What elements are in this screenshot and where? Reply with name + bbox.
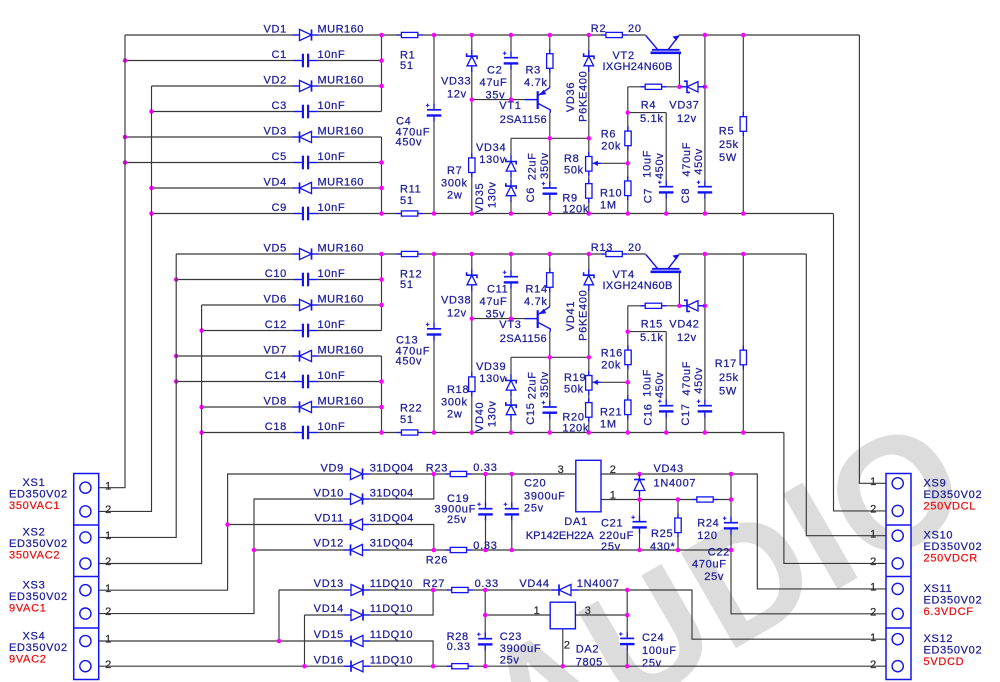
node right bus junctions ch1 (379, 58, 384, 190)
wire XS3 pin1 / VD9 row / DA1 pin3 (92, 474, 576, 590)
svg-text:R21: R21 (600, 407, 622, 419)
node DA2 pin rows junctions (483, 613, 630, 618)
svg-text:250VDCL: 250VDCL (924, 500, 977, 512)
svg-text:VD13: VD13 (314, 578, 344, 590)
svg-text:10nF: 10nF (318, 268, 346, 280)
svg-text:2: 2 (870, 504, 877, 516)
wire wiper row ch1 (592, 162, 628, 164)
wire C17 column ch2 (704, 254, 706, 433)
svg-text:120: 120 (697, 530, 717, 542)
capacitor C6 22uF 350v (542, 186, 558, 195)
svg-text:C20: C20 (524, 477, 546, 489)
svg-text:20k: 20k (601, 360, 621, 372)
resistor R25 430* (677, 513, 679, 537)
resistor R28 0.33 (447, 665, 473, 667)
wire gate drop ch2 (678, 272, 680, 306)
wire XS1 pin2 to ch1 bus B (92, 86, 152, 511)
svg-text:0.33: 0.33 (473, 540, 497, 552)
svg-text:1: 1 (534, 605, 541, 617)
svg-text:XS11: XS11 (924, 583, 953, 595)
svg-text:MUR160: MUR160 (318, 24, 364, 36)
transistor VT3 2SA1156 (525, 318, 538, 320)
svg-text:C1: C1 (272, 49, 287, 61)
wire gnd rail DA1 block (254, 549, 731, 551)
svg-text:VD33: VD33 (441, 76, 471, 88)
node left bus B junctions ch2 (199, 328, 204, 409)
connector XS1-XS4 terminal block (74, 474, 99, 680)
svg-text:R11: R11 (400, 184, 421, 196)
svg-text:100uF: 100uF (642, 645, 677, 657)
zener VD33 12v (471, 50, 473, 72)
svg-text:470uF: 470uF (681, 142, 693, 177)
tvs VD36 P6KE400 (588, 50, 590, 72)
wire VD36/R8/R9 column ch1 (588, 35, 590, 214)
svg-text:51: 51 (400, 60, 414, 72)
capacitor C3 10nF (301, 104, 311, 120)
svg-text:C8: C8 (680, 188, 692, 203)
capacitor C8 470uF 450v (697, 185, 713, 194)
wire row VD3 ch1 (125, 136, 382, 138)
wire R15 node row ch2 (628, 331, 666, 333)
resistor R27 0.33 (447, 589, 473, 591)
wire C16 column ch2 (665, 332, 667, 433)
svg-text:C17: C17 (680, 403, 692, 425)
capacitor C14 10nF (301, 374, 311, 390)
node VD13/VD15 join (277, 639, 282, 644)
wire R5 column ch1 (742, 35, 744, 214)
svg-text:10nF: 10nF (318, 100, 346, 112)
svg-text:47uF: 47uF (480, 77, 508, 89)
svg-text:3: 3 (585, 605, 592, 617)
wire row VD2 ch1 (152, 85, 382, 87)
svg-text:450v: 450v (693, 148, 705, 175)
svg-text:5.1k: 5.1k (640, 113, 664, 125)
svg-text:C7: C7 (643, 188, 655, 203)
svg-text:C5: C5 (272, 151, 287, 163)
svg-text:430*: 430* (650, 541, 675, 553)
svg-text:C14: C14 (265, 370, 287, 382)
svg-text:120k: 120k (562, 204, 589, 216)
wire C8 column ch1 (704, 35, 706, 214)
wire top rail channel 1 (125, 34, 859, 36)
svg-text:4.7k: 4.7k (524, 77, 548, 89)
resistor R2 20 (601, 34, 627, 36)
svg-text:VD38: VD38 (441, 295, 471, 307)
diode VD9 31DQ04 (344, 473, 370, 475)
svg-text:11DQ10: 11DQ10 (370, 629, 413, 641)
svg-text:IXGH24N60B: IXGH24N60B (603, 61, 673, 73)
svg-text:VD44: VD44 (519, 578, 549, 590)
wire R16/R21 column ch2 (627, 306, 629, 433)
svg-text:R18: R18 (447, 384, 469, 396)
node top rail junctions ch2 (379, 252, 745, 257)
svg-text:R6: R6 (601, 129, 616, 141)
diode VD2 MUR160 (293, 85, 319, 87)
svg-text:10nF: 10nF (318, 202, 346, 214)
node base row junctions ch1 (470, 97, 514, 102)
svg-text:R27: R27 (423, 578, 445, 590)
zener VD35 130v (510, 180, 512, 202)
wire row VD7 ch2 (176, 355, 381, 357)
svg-text:XS10: XS10 (924, 530, 954, 542)
tvs VD41 P6KE400 (588, 269, 590, 291)
wire C23 column (484, 590, 486, 666)
wire ch1 top rail to XS9 pin1 (859, 35, 904, 483)
wire base row ch1 (472, 99, 538, 101)
svg-text:31DQ04: 31DQ04 (370, 487, 414, 499)
wire wiper row ch2 (592, 381, 628, 383)
svg-text:C23: C23 (500, 631, 522, 643)
wire row VD8 ch2 (202, 406, 382, 408)
svg-text:ED350V02: ED350V02 (924, 645, 983, 657)
resistor R3 4.7k (549, 49, 551, 73)
resistor R11 51 (397, 213, 423, 215)
wire row VD6 ch2 (202, 304, 382, 306)
svg-text:R23: R23 (426, 463, 448, 475)
svg-text:XS12: XS12 (924, 633, 954, 645)
svg-text:MUR160: MUR160 (318, 75, 364, 87)
wire collector row ch2 (511, 356, 589, 358)
diode VD13 11DQ10 (344, 589, 370, 591)
svg-text:350v: 350v (539, 152, 551, 179)
wire gnd rail XS4 pin2 / VD16 row to XS12 pin2 (92, 665, 905, 667)
wire bottom rail channel 1 (152, 213, 834, 215)
zener VD40 130v (510, 399, 512, 421)
svg-text:C6: C6 (525, 187, 537, 202)
svg-text:DA1: DA1 (564, 516, 588, 528)
svg-text:C15: C15 (525, 402, 537, 424)
svg-text:VD43: VD43 (654, 463, 684, 475)
svg-text:IXGH24N60B: IXGH24N60B (603, 280, 673, 292)
svg-text:R8: R8 (564, 153, 579, 165)
capacitor C15 22uF 350v (542, 405, 558, 414)
svg-text:VD15: VD15 (314, 629, 344, 641)
svg-text:450v: 450v (396, 137, 423, 149)
resistor R4 5.1k (640, 86, 666, 88)
svg-text:10nF: 10nF (318, 151, 346, 163)
wire row C5 ch1 (125, 162, 382, 164)
wire row C3 ch1 (152, 111, 382, 113)
diode VD5 MUR160 (293, 253, 319, 255)
wire row C14 ch2 (176, 381, 381, 383)
svg-text:VD3: VD3 (264, 126, 288, 138)
resistor R21 1M (627, 395, 629, 419)
svg-text:1: 1 (870, 476, 877, 488)
svg-text:VD8: VD8 (264, 396, 288, 408)
node divider junctions ch1 (626, 110, 631, 165)
capacitor C17 470uF 450v (697, 404, 713, 413)
svg-text:12v: 12v (677, 113, 697, 125)
potentiometer R19 50k (588, 371, 590, 395)
diode VD12 31DQ04 (344, 549, 370, 551)
svg-text:31DQ04: 31DQ04 (370, 537, 414, 549)
svg-text:10nF: 10nF (318, 49, 346, 61)
wire row C1 ch1 (125, 60, 382, 62)
svg-text:1N4007: 1N4007 (577, 578, 620, 590)
resistor R17 25k 5W (742, 346, 744, 370)
wire C11 column ch2 (510, 254, 512, 319)
wire XS4 pin1 / VD15 row (92, 641, 434, 666)
svg-text:VD11: VD11 (315, 512, 345, 524)
svg-text:VD35: VD35 (474, 183, 486, 213)
svg-text:KP142EH22A: KP142EH22A (526, 530, 595, 542)
wire XS2 pin1 to ch2 bus A (92, 254, 177, 537)
wire C4 column ch1 (433, 35, 435, 214)
svg-text:VD2: VD2 (264, 75, 288, 87)
svg-text:R25: R25 (651, 528, 673, 540)
capacitor C21 220uF 25v (632, 520, 648, 529)
resistor R18 300k 2w (471, 372, 473, 396)
diode VD6 MUR160 (293, 304, 319, 306)
wire row C10 ch2 (176, 279, 381, 281)
wire collector row ch1 (511, 137, 589, 139)
svg-text:1: 1 (870, 528, 877, 540)
node DA1 pin1 row junctions (637, 497, 733, 502)
capacitor C13 470uF 450v (426, 327, 442, 336)
svg-text:470uF: 470uF (681, 361, 693, 396)
resistor R16 20k (627, 345, 629, 369)
svg-text:2: 2 (564, 640, 571, 652)
svg-text:XS9: XS9 (924, 477, 947, 489)
wire VD14 join drop (304, 615, 306, 666)
resistor R14 4.7k (549, 268, 551, 292)
svg-text:VD6: VD6 (264, 294, 288, 306)
wire C24 column (626, 590, 628, 666)
svg-text:VD36: VD36 (565, 82, 577, 112)
svg-text:25v: 25v (642, 658, 662, 670)
svg-text:0.33: 0.33 (475, 578, 499, 590)
svg-text:47uF: 47uF (480, 296, 508, 308)
svg-text:ED350V02: ED350V02 (9, 489, 68, 501)
wire XS3 pin2 / VD10 row (92, 474, 434, 614)
svg-text:5.1k: 5.1k (640, 332, 664, 344)
diode VD4 MUR160 (293, 187, 319, 189)
zener VD34 130v (510, 155, 512, 177)
svg-text:470uF: 470uF (692, 559, 727, 571)
svg-text:12v: 12v (447, 308, 467, 320)
svg-text:C11: C11 (487, 284, 508, 296)
svg-text:VD4: VD4 (264, 177, 288, 189)
svg-text:2: 2 (870, 606, 877, 618)
svg-text:25v: 25v (447, 514, 467, 526)
wire gate row ch2 (628, 305, 705, 307)
wire VD11 row (228, 525, 434, 551)
svg-text:2: 2 (105, 556, 112, 568)
resistor R6 20k (627, 126, 629, 150)
svg-text:R15: R15 (641, 319, 663, 331)
wire DA2 pin1 row (485, 614, 550, 616)
resistor R22 51 (397, 432, 423, 434)
svg-text:350VAC1: 350VAC1 (9, 500, 60, 512)
capacitor C19 3900uF 25v (478, 507, 494, 516)
svg-text:XS4: XS4 (23, 630, 46, 642)
svg-text:C18: C18 (265, 421, 287, 433)
wire DA2 pin2 drop (562, 629, 564, 666)
node top rail junctions ch1 (379, 33, 745, 38)
svg-text:R16: R16 (601, 348, 623, 360)
svg-text:11DQ10: 11DQ10 (370, 603, 413, 615)
node gate row junctions ch1 (677, 85, 707, 90)
wire VD13 join drop (278, 590, 280, 641)
node base row junctions ch2 (470, 316, 514, 321)
wire base row ch2 (472, 318, 538, 320)
wire VD34/VD35 column ch1 (510, 138, 512, 213)
svg-text:130v: 130v (487, 181, 499, 208)
svg-text:25k: 25k (719, 372, 739, 384)
resistor R1 51 (397, 34, 423, 36)
svg-text:450v: 450v (654, 371, 666, 398)
node gnd rail junctions DA1 block (225, 522, 733, 552)
igbt VT4 IXGH24N60B (652, 268, 680, 270)
svg-text:31DQ04: 31DQ04 (370, 512, 414, 524)
svg-text:MUR160: MUR160 (318, 396, 364, 408)
capacitor C24 100uF 25v (619, 637, 635, 646)
capacitor C11 47uF 35v (503, 275, 519, 284)
wire C7 column ch1 (665, 113, 667, 214)
svg-text:25v: 25v (601, 541, 621, 553)
svg-text:450v: 450v (693, 367, 705, 394)
svg-text:R7: R7 (447, 165, 462, 177)
svg-text:R24: R24 (697, 518, 719, 530)
svg-text:22uF: 22uF (527, 371, 539, 399)
wire ch1 bottom rail to XS9 pin2 (834, 214, 905, 511)
wire R14/C15 column ch2 (549, 254, 551, 433)
wire XS2 pin2 to ch2 bus B (92, 305, 202, 564)
wire VD38/R18 column ch2 (471, 254, 473, 433)
node left bus B junctions ch1 (149, 109, 154, 190)
svg-text:10nF: 10nF (318, 421, 346, 433)
wire R4 node row ch1 (628, 112, 666, 114)
svg-text:ED350V02: ED350V02 (9, 642, 68, 654)
pin numbers XS1-XS4 (105, 480, 112, 671)
svg-text:VT1: VT1 (499, 100, 521, 112)
svg-text:2: 2 (105, 504, 112, 516)
wire VD41/R19/R20 column ch2 (588, 254, 590, 433)
resistor R15 5.1k (640, 305, 666, 307)
svg-text:C21: C21 (601, 518, 623, 530)
svg-text:0.33: 0.33 (473, 462, 497, 474)
svg-text:MUR160: MUR160 (318, 126, 364, 138)
svg-text:300k: 300k (441, 177, 468, 189)
pin numbers XS9-XS12 (870, 476, 877, 671)
capacitor C10 10nF (301, 272, 311, 288)
svg-text:300k: 300k (441, 396, 468, 408)
capacitor C5 10nF (301, 155, 311, 171)
svg-text:C12: C12 (265, 319, 287, 331)
svg-text:3: 3 (558, 464, 565, 476)
svg-text:3900uF: 3900uF (524, 490, 566, 502)
svg-text:ED350V02: ED350V02 (924, 594, 983, 606)
wire VD14 row (305, 590, 434, 615)
resistor R26 0.33 (445, 549, 471, 551)
svg-text:25v: 25v (524, 503, 544, 515)
svg-text:VD34: VD34 (476, 142, 506, 154)
svg-text:R4: R4 (641, 100, 656, 112)
svg-text:2SA1156: 2SA1156 (500, 114, 547, 126)
svg-text:250VDCR: 250VDCR (924, 553, 978, 565)
svg-text:1: 1 (870, 582, 877, 594)
svg-text:VD7: VD7 (264, 345, 288, 357)
wire C13 column ch2 (433, 254, 435, 433)
svg-text:1: 1 (870, 632, 877, 644)
svg-text:350v: 350v (539, 371, 551, 398)
svg-text:VD40: VD40 (474, 402, 486, 432)
svg-text:VD9: VD9 (321, 463, 345, 475)
diode VD16 11DQ10 (344, 665, 370, 667)
svg-text:R13: R13 (591, 242, 613, 254)
svg-text:ED350V02: ED350V02 (924, 541, 983, 553)
node collector row junctions ch1 (548, 136, 592, 141)
svg-text:1M: 1M (600, 419, 617, 431)
svg-text:10uF: 10uF (642, 150, 654, 178)
diode VD44 1N4007 (552, 589, 578, 591)
wire VD39/VD40 column ch2 (510, 357, 512, 432)
wire VD43/C21 column (639, 474, 641, 550)
svg-text:VD42: VD42 (669, 319, 699, 331)
potentiometer R8 50k (588, 152, 590, 176)
svg-text:VT3: VT3 (499, 319, 521, 331)
capacitor C12 10nF (301, 323, 311, 339)
svg-text:VD41: VD41 (565, 301, 577, 331)
node collector row junctions ch2 (548, 355, 592, 360)
svg-text:ED350V02: ED350V02 (9, 591, 68, 603)
svg-text:XS2: XS2 (23, 527, 46, 539)
svg-text:MUR160: MUR160 (318, 345, 364, 357)
svg-text:ED350V02: ED350V02 (924, 489, 983, 501)
svg-text:25k: 25k (719, 139, 739, 151)
svg-text:R26: R26 (426, 555, 448, 567)
node gate row junctions ch2 (677, 304, 707, 309)
svg-text:1: 1 (610, 489, 617, 501)
wire row C12 ch2 (202, 330, 382, 332)
svg-text:31DQ04: 31DQ04 (370, 463, 414, 475)
svg-text:C22: C22 (708, 547, 730, 559)
diode VD14 11DQ10 (344, 614, 370, 616)
svg-text:XS1: XS1 (23, 477, 46, 489)
svg-text:130v: 130v (479, 154, 506, 166)
svg-text:R5: R5 (719, 125, 734, 137)
svg-text:130v: 130v (479, 373, 506, 385)
wire XS1 pin1 to ch1 bus A (92, 35, 126, 488)
svg-text:20: 20 (628, 23, 642, 35)
svg-text:12v: 12v (677, 332, 697, 344)
svg-text:130v: 130v (487, 400, 499, 427)
svg-text:VD39: VD39 (476, 361, 506, 373)
capacitor C4 470uF 450v (426, 108, 442, 117)
svg-text:DA2: DA2 (576, 644, 600, 656)
wire ch2 bottom rail to XS10 pin2 (784, 433, 904, 564)
capacitor C18 10nF (301, 425, 311, 441)
wire bottom rail channel 2 (202, 432, 784, 434)
svg-text:VD12: VD12 (314, 537, 344, 549)
svg-text:P6KE400: P6KE400 (577, 290, 589, 341)
wire gate drop ch1 (678, 53, 680, 87)
svg-text:ED350V02: ED350V02 (9, 538, 68, 550)
wire row VD4 ch1 (152, 187, 382, 189)
zener VD39 130v (510, 374, 512, 396)
svg-text:10nF: 10nF (318, 370, 346, 382)
capacitor C7 10uF 450v (658, 185, 674, 194)
svg-text:2: 2 (870, 556, 877, 568)
node bottom rail junctions ch2 (199, 430, 745, 435)
wire C19 column (485, 474, 487, 550)
wire right bus ch2 (381, 254, 383, 433)
svg-text:1: 1 (105, 583, 112, 595)
node VD13 output row junctions (431, 588, 630, 593)
svg-text:1N4007: 1N4007 (654, 477, 697, 489)
resistor R10 1M (627, 176, 629, 200)
svg-text:20k: 20k (601, 141, 621, 153)
